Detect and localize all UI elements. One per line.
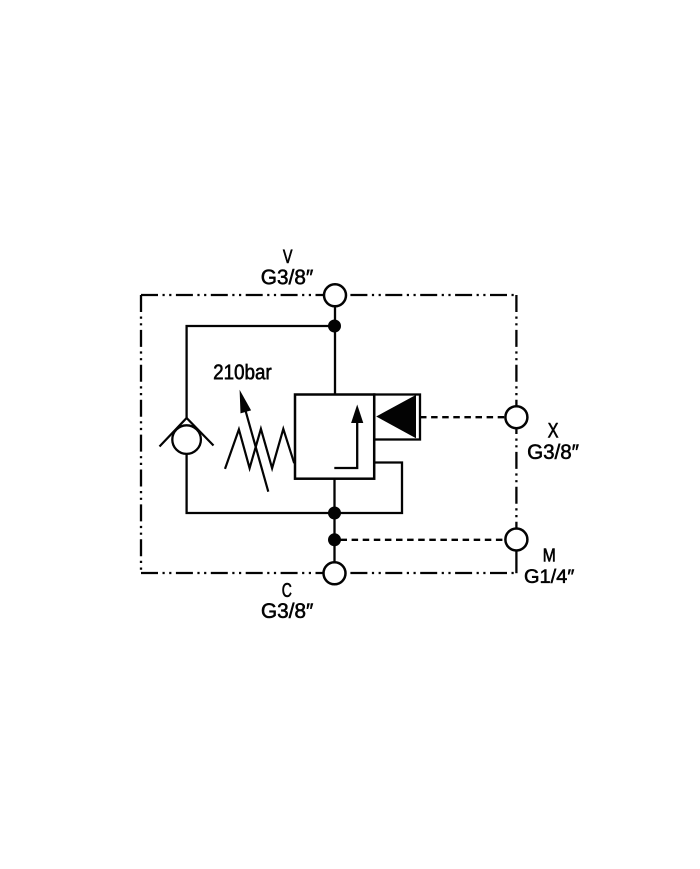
flow arrow inside valve xyxy=(334,420,357,468)
enclosure boundary right side upper xyxy=(515,295,517,417)
port M circle xyxy=(505,529,527,551)
label M port size G1/4 xyxy=(525,569,574,583)
junction dot below V xyxy=(328,320,341,333)
relief valve body U1 (square envelope) xyxy=(295,395,374,479)
check valve ball xyxy=(172,425,201,454)
label V xyxy=(283,250,292,263)
port X circle xyxy=(505,406,527,428)
enclosure boundary left side xyxy=(140,295,142,573)
junction dot at gauge branch xyxy=(328,533,341,546)
enclosure boundary (phantom line) top side xyxy=(141,294,516,296)
label 210bar setting xyxy=(214,364,271,380)
port C circle xyxy=(324,562,346,584)
wire relief valve outlet down to port C xyxy=(333,479,335,573)
pilot line (dashed) to port X xyxy=(420,416,505,418)
pilot actuation triangle (filled) xyxy=(376,395,416,438)
check valve seat xyxy=(160,418,214,447)
adjustment arrow shaft xyxy=(244,404,269,492)
enclosure boundary right side lower stub xyxy=(515,551,517,574)
label V port size G3/8 xyxy=(262,269,313,284)
enclosure boundary right side middle xyxy=(515,417,517,540)
junction dot at outlet xyxy=(328,507,341,520)
wire bypass branch top (node to check valve) xyxy=(187,326,335,418)
label C port size G3/8 xyxy=(262,603,313,618)
label C xyxy=(283,583,292,597)
enclosure boundary bottom side xyxy=(141,572,516,574)
label M xyxy=(544,549,555,562)
label X xyxy=(548,423,558,438)
wire from port V down to relief valve inlet xyxy=(334,295,336,395)
pilot head box xyxy=(374,395,420,440)
spring (zigzag) xyxy=(225,429,294,469)
gauge line (dashed) from junction to port M xyxy=(341,539,506,541)
port V circle xyxy=(324,284,346,306)
adjustment arrow head xyxy=(240,390,252,414)
label X port size G3/8 xyxy=(528,444,578,459)
flow arrow head xyxy=(351,405,363,424)
wire drain loop from valve right side to outlet junction xyxy=(340,463,402,514)
wire below check valve to bottom junction xyxy=(187,452,335,513)
